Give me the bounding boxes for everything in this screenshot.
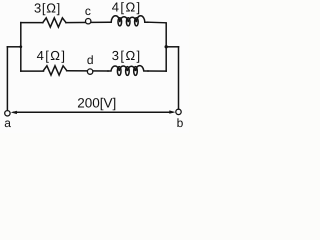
node d open circle <box>87 69 92 74</box>
inductor L2 loop 2 <box>126 67 130 76</box>
svg-text:3[Ω]: 3[Ω] <box>112 48 142 63</box>
wire: middle branch right segment <box>148 70 166 72</box>
svg-text:c: c <box>85 4 91 18</box>
label 200[V] voltage <box>77 95 116 110</box>
label terminal a <box>4 116 11 130</box>
inductor L2 loop 1 <box>117 67 121 76</box>
wire: 200V dimension line between a and b <box>14 111 173 113</box>
inductor L1 loop 2 <box>126 18 130 26</box>
node c open circle <box>86 19 91 24</box>
svg-text:4[Ω]: 4[Ω] <box>112 0 142 14</box>
terminal a open circle <box>5 111 10 116</box>
label node d <box>87 53 94 67</box>
label node c <box>85 4 91 18</box>
wire: left outer rail down to terminal a <box>6 47 8 111</box>
junction dot right (x=166.2 y=46.8) <box>165 45 168 48</box>
junction dot left (x=20.8 y=46.8) <box>19 45 22 48</box>
inductor L1 4Ω (top branch) humps <box>108 16 148 22</box>
svg-text:200[V]: 200[V] <box>77 95 116 110</box>
wire: right connector stub to outer rail <box>166 46 178 48</box>
wire: left inner rail connecting branches <box>20 23 22 72</box>
arrowhead pointing left at terminal a <box>11 111 17 114</box>
svg-text:4[Ω]: 4[Ω] <box>37 48 67 63</box>
resistor R2 4Ω (middle branch) <box>44 66 67 75</box>
inductor L2 loop 3 <box>134 67 138 76</box>
label 4[Ω] for L1 <box>112 0 142 14</box>
wire: right outer rail down to terminal b <box>178 47 180 109</box>
resistor R1 3Ω (top branch) <box>43 18 66 27</box>
inductor L1 loop 1 <box>118 18 122 26</box>
label 3[Ω] for R1 <box>34 0 61 15</box>
svg-text:3[Ω]: 3[Ω] <box>34 0 61 15</box>
svg-text:a: a <box>4 116 11 130</box>
wire: middle branch between R2 and node d and on to L2 <box>67 70 108 72</box>
arrowhead pointing right at terminal b <box>169 110 175 113</box>
terminal b open circle <box>176 109 181 114</box>
inductor L1 loop 3 <box>135 18 139 26</box>
svg-text:d: d <box>87 53 94 67</box>
inductor L2 3Ω (middle branch) humps <box>108 66 148 71</box>
label 4[Ω] for R2 <box>37 48 67 63</box>
wire: top branch right segment to corner and down right inner rail <box>148 22 166 71</box>
svg-text:b: b <box>177 116 184 130</box>
wire: middle branch left segment <box>21 70 44 72</box>
wire: top branch between R1 and node c and on to L1 <box>66 21 108 23</box>
wire: top branch left segment <box>21 22 43 24</box>
wire: left connector stub to outer rail <box>7 46 20 48</box>
label terminal b <box>177 116 184 130</box>
label 3[Ω] for L2 <box>112 48 142 63</box>
